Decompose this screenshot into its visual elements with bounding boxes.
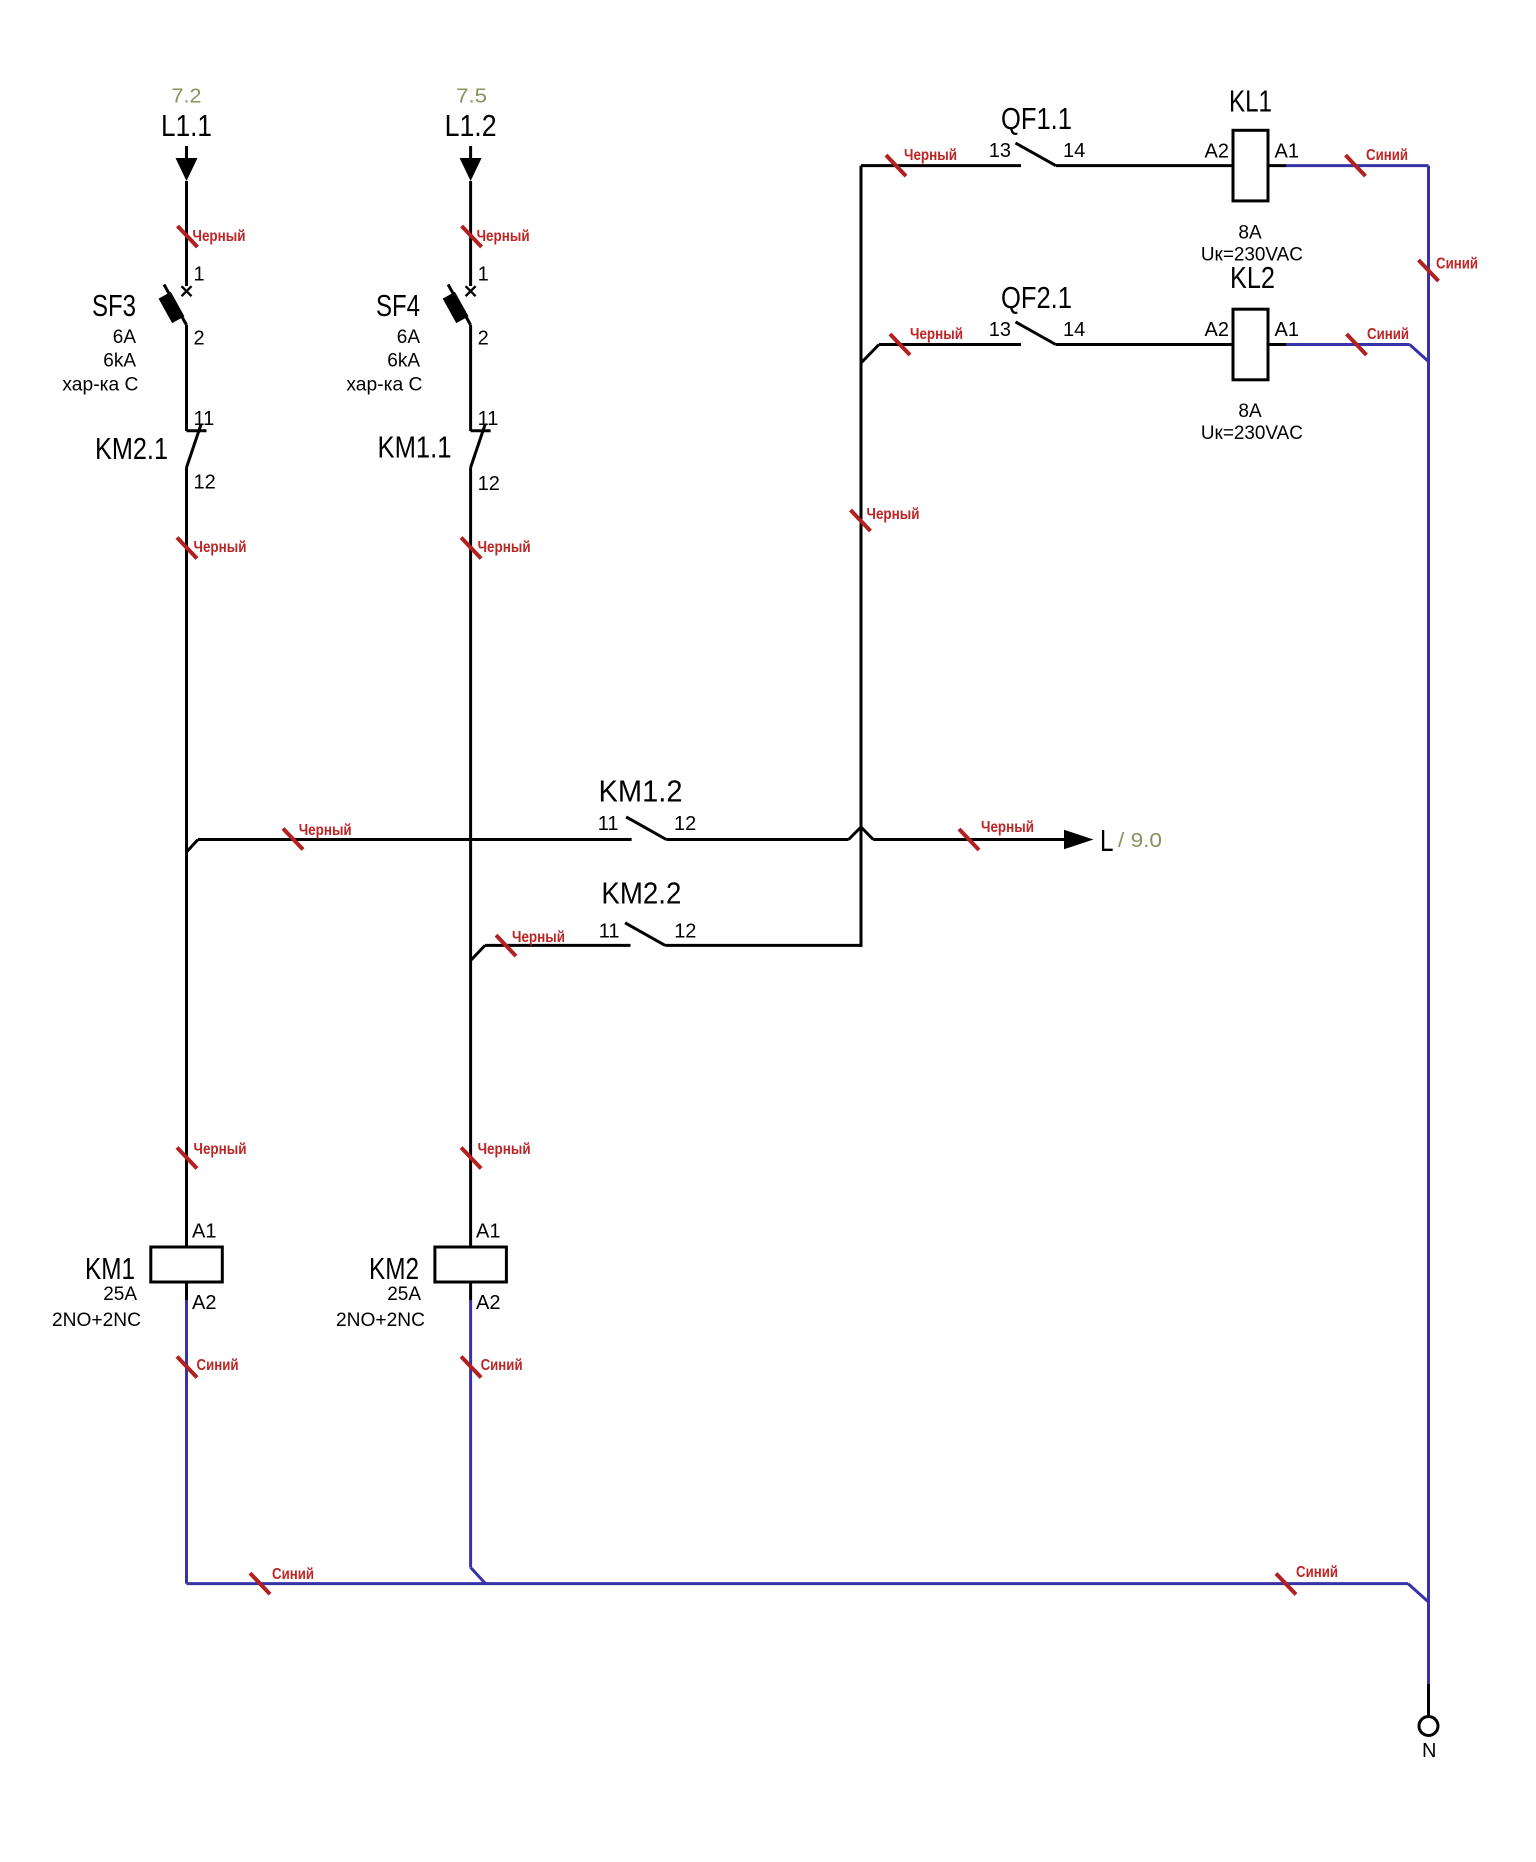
wire KM1.1 pin 12 to KM2 coil A1 <box>469 468 472 1248</box>
svg-text:L1.2: L1.2 <box>445 108 497 143</box>
svg-text:11: 11 <box>599 920 620 942</box>
svg-text:Черный: Черный <box>512 929 565 946</box>
svg-text:Синий: Синий <box>1296 1564 1338 1581</box>
wire color label Черный (to KM2 coil) <box>461 1141 530 1169</box>
svg-text:A2: A2 <box>192 1292 216 1314</box>
svg-text:Черный: Черный <box>193 228 246 245</box>
svg-text:A1: A1 <box>1275 141 1299 163</box>
svg-text:Черный: Черный <box>299 822 352 839</box>
svg-text:KM1.2: KM1.2 <box>599 773 683 808</box>
wire KM2 A2 down (blue) <box>469 1300 472 1568</box>
svg-text:A2: A2 <box>1205 141 1229 163</box>
NC contact KM1.1 <box>471 425 491 468</box>
svg-text:Синий: Синий <box>1436 255 1478 272</box>
svg-text:KM2.2: KM2.2 <box>601 876 681 911</box>
svg-text:13: 13 <box>989 140 1011 162</box>
svg-text:11: 11 <box>194 408 215 430</box>
svg-text:11: 11 <box>598 813 619 835</box>
svg-text:2NO+2NC: 2NO+2NC <box>52 1310 141 1331</box>
circuit breaker SF3 <box>159 285 192 326</box>
wire to N terminal <box>1427 1684 1430 1717</box>
svg-text:1: 1 <box>194 264 205 286</box>
svg-text:Черный: Черный <box>867 506 920 523</box>
wire color label Черный (QF2.1 row) <box>890 326 963 355</box>
junction diagonal QF2 branch <box>862 345 880 363</box>
svg-text:KL1: KL1 <box>1229 84 1272 119</box>
wire KM1.2 left <box>198 838 632 841</box>
svg-text:A2: A2 <box>1205 319 1229 341</box>
contactor coil KM1 <box>151 1247 223 1282</box>
junction Y right diagonal <box>861 827 873 840</box>
wire L1.1 to SF3 pin 1 <box>185 181 188 286</box>
wire color label Черный (KM1.2 left) <box>283 822 352 850</box>
svg-text:7.2: 7.2 <box>172 85 202 107</box>
wire L1.2 to SF4 pin 1 <box>469 181 472 286</box>
svg-text:6kA: 6kA <box>387 351 420 372</box>
wire color label Синий (KM1-N) <box>177 1357 239 1378</box>
QF feed vertical wire <box>860 166 863 947</box>
svg-text:Uк=230VAC: Uк=230VAC <box>1201 423 1303 444</box>
wire QF1.1 to KL1 A2 <box>1056 164 1233 167</box>
junction diagonal to KM2.2 branch <box>471 945 485 960</box>
svg-text:Черный: Черный <box>904 147 957 164</box>
svg-text:7.5: 7.5 <box>456 85 487 107</box>
relay coil KL2 <box>1233 309 1268 380</box>
svg-text:13: 13 <box>989 319 1011 341</box>
wire KM1.2 right <box>666 838 848 841</box>
svg-text:Синий: Синий <box>481 1357 523 1374</box>
wire color label Черный (QF feed) <box>851 506 920 531</box>
svg-text:1: 1 <box>478 264 489 286</box>
output arrow head <box>1064 830 1094 849</box>
wire color label Синий (KL2-N) <box>1347 326 1410 355</box>
svg-text:Черный: Черный <box>478 1141 531 1158</box>
svg-text:2: 2 <box>478 327 489 349</box>
svg-text:QF1.1: QF1.1 <box>1001 101 1072 136</box>
svg-text:Синий: Синий <box>1367 326 1409 343</box>
svg-text:Черный: Черный <box>194 539 247 556</box>
wire QF2.1 row left <box>879 343 1021 346</box>
svg-text:14: 14 <box>1063 319 1085 341</box>
svg-text:6A: 6A <box>397 327 421 348</box>
relay coil KL1 <box>1233 130 1268 201</box>
wire KL2 A1 right (blue) <box>1286 343 1410 346</box>
wire KL1 A1 to N riser (blue) <box>1286 164 1429 167</box>
svg-text:SF4: SF4 <box>376 288 420 323</box>
svg-text:Черный: Черный <box>194 1141 247 1158</box>
wire color label Черный (L1.2-SF4) <box>462 226 530 247</box>
svg-text:/ 9.0: / 9.0 <box>1118 830 1162 852</box>
NO contact KM2.2 blade <box>625 923 665 946</box>
wire color label Синий (bus right) <box>1276 1564 1338 1595</box>
wire color label Синий (KL1-N) <box>1346 147 1409 176</box>
wire KM2.2 right <box>665 944 862 947</box>
svg-text:KM2.1: KM2.1 <box>95 431 168 466</box>
N riser vertical (blue) <box>1427 166 1430 1684</box>
svg-text:25A: 25A <box>387 1284 421 1305</box>
NO contact QF2.1 blade <box>1016 322 1056 345</box>
svg-text:11: 11 <box>478 408 499 430</box>
wire KM1 A2 stub <box>185 1282 188 1300</box>
wire KM2 A2 stub <box>469 1282 472 1300</box>
wire color label Синий (KM2-N) <box>461 1357 522 1378</box>
terminal N circle <box>1419 1717 1438 1736</box>
svg-text:хар-ка C: хар-ка C <box>62 375 138 396</box>
wire QF1.1 row left <box>861 164 1021 167</box>
svg-text:12: 12 <box>674 813 696 835</box>
wire color label Синий (N riser) <box>1419 255 1479 281</box>
svg-text:2NO+2NC: 2NO+2NC <box>336 1310 425 1331</box>
svg-text:Черный: Черный <box>981 819 1034 836</box>
svg-text:14: 14 <box>1063 140 1085 162</box>
wire color label Черный (KM2.1-down) <box>177 538 247 559</box>
svg-text:KM1: KM1 <box>85 1251 135 1286</box>
svg-text:12: 12 <box>674 920 696 942</box>
wire color label Черный (output L) <box>959 819 1034 850</box>
node L1.1 source arrow <box>176 146 198 181</box>
svg-text:Черный: Черный <box>477 228 530 245</box>
contactor coil KM2 <box>435 1247 507 1282</box>
svg-text:Черный: Черный <box>910 326 963 343</box>
wire to output arrow L <box>873 838 1064 841</box>
wire QF2.1 to KL2 A2 <box>1056 343 1233 346</box>
junction diagonal to KM1.2 branch <box>187 840 198 852</box>
svg-text:Синий: Синий <box>197 1357 239 1374</box>
svg-text:8A: 8A <box>1238 401 1262 422</box>
junction diagonal KM2 to N bus (blue) <box>471 1568 486 1584</box>
svg-text:KM1.1: KM1.1 <box>378 430 452 465</box>
wire color label Черный (KM2.2 left) <box>496 929 565 956</box>
wire KM2.1 pin 12 to KM1 coil A1 <box>185 468 188 1248</box>
node L1.2 source arrow <box>460 146 482 181</box>
junction diagonal KL2 to N riser (blue) <box>1410 345 1429 362</box>
wire KL1 A1 stub <box>1268 164 1286 167</box>
wire color label Синий (bus left) <box>250 1566 314 1594</box>
svg-text:8A: 8A <box>1238 222 1262 243</box>
svg-text:A1: A1 <box>1275 319 1299 341</box>
svg-text:KL2: KL2 <box>1230 260 1275 295</box>
wire KM1 A2 to N bus (blue) <box>185 1300 188 1584</box>
svg-text:A2: A2 <box>476 1292 500 1314</box>
junction diagonal bus to N riser (blue) <box>1408 1584 1429 1602</box>
wire color label Черный (L1.1-SF3) <box>178 226 246 247</box>
svg-text:12: 12 <box>478 473 500 495</box>
svg-text:A1: A1 <box>192 1221 216 1243</box>
wire color label Черный (KM1.1-down) <box>461 538 530 559</box>
NC contact KM2.1 <box>187 425 207 468</box>
NO contact QF1.1 blade <box>1016 143 1056 166</box>
svg-text:KM2: KM2 <box>369 1251 419 1286</box>
svg-text:6kA: 6kA <box>103 351 136 372</box>
NO contact KM1.2 blade <box>626 817 666 840</box>
wire KM2.2 left <box>485 944 631 947</box>
bottom N bus (blue) <box>187 1582 1409 1585</box>
svg-text:SF3: SF3 <box>92 288 136 323</box>
svg-text:A1: A1 <box>476 1221 500 1243</box>
wire color label Черный (QF1.1 row) <box>886 147 957 176</box>
wire SF3 pin 2 to KM2.1 pin 11 <box>185 325 188 431</box>
svg-text:Черный: Черный <box>478 539 531 556</box>
svg-text:12: 12 <box>194 472 216 494</box>
wire color label Черный (to KM1 coil) <box>177 1141 247 1169</box>
svg-text:2: 2 <box>194 327 205 349</box>
junction Y left diagonal <box>849 827 861 840</box>
wire KL2 A1 stub <box>1268 343 1286 346</box>
svg-text:QF2.1: QF2.1 <box>1001 280 1072 315</box>
svg-text:25A: 25A <box>103 1284 137 1305</box>
svg-text:Синий: Синий <box>272 1566 314 1583</box>
svg-text:L: L <box>1100 823 1114 858</box>
svg-text:хар-ка C: хар-ка C <box>346 375 422 396</box>
svg-text:N: N <box>1422 1740 1436 1762</box>
circuit breaker SF4 <box>443 285 476 326</box>
svg-text:Синий: Синий <box>1366 147 1408 164</box>
svg-text:L1.1: L1.1 <box>161 108 212 143</box>
svg-text:6A: 6A <box>113 327 137 348</box>
wire SF4 pin 2 to KM1.1 pin 11 <box>469 325 472 431</box>
